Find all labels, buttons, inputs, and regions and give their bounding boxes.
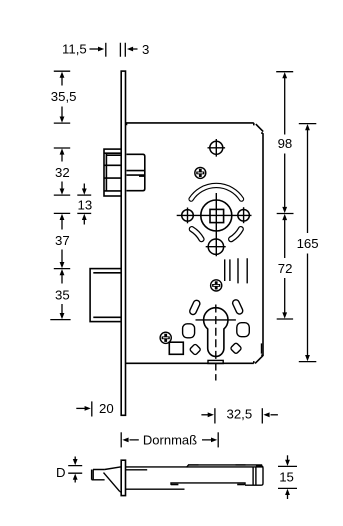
svg-text:35,5: 35,5: [51, 89, 77, 104]
dim 37 (left): [54, 213, 70, 268]
side view: top tabs: [188, 464, 199, 465]
dim 13 (left, col B): [77, 184, 92, 225]
side view: bottom tabs: [171, 484, 179, 486]
screw A: [195, 167, 206, 178]
bottom tab: [208, 360, 223, 363]
svg-text:15: 15: [279, 469, 294, 484]
latch tail: [127, 154, 145, 190]
dim 15 (side view): [278, 455, 297, 499]
euro cylinder hole: [204, 308, 228, 357]
svg-text:165: 165: [297, 236, 319, 251]
kidney slot lower-right of follower: [231, 229, 241, 239]
svg-text:32,5: 32,5: [227, 406, 253, 421]
latch head (front view): [104, 149, 121, 196]
side view: lock case body: [126, 465, 264, 489]
slot upper-right of cylinder: [232, 299, 244, 315]
kidney slot lower-left of follower: [192, 229, 202, 239]
svg-text:20: 20: [99, 401, 114, 416]
lower hole below follower: [206, 239, 226, 254]
top fixing hole: [208, 139, 226, 157]
svg-text:13: 13: [78, 198, 93, 213]
dim 11,5 (top): [62, 41, 106, 56]
dim 98 (right): [276, 72, 293, 214]
svg-text:Dornmaß: Dornmaß: [143, 432, 197, 447]
svg-text:32: 32: [55, 165, 70, 180]
screw C: [160, 332, 171, 343]
small diamond slot lower-left: [189, 344, 201, 356]
cylinder crosshair: [196, 319, 236, 321]
svg-text:37: 37: [55, 233, 70, 248]
side view: faceplate: [121, 460, 125, 495]
small diamond slot lower-right: [230, 342, 242, 354]
svg-text:3: 3: [142, 42, 149, 57]
dim 35 (left): [50, 269, 70, 320]
svg-text:D: D: [56, 465, 66, 480]
hatch lines: [225, 258, 248, 283]
follower crosshair: [177, 193, 252, 256]
dim 32,5 (bottom right): [201, 406, 278, 423]
dim Dornmass: [121, 432, 218, 447]
slot upper-left of cylinder: [189, 299, 201, 315]
slot right of cylinder: [237, 323, 250, 337]
follower circle: [201, 200, 232, 231]
side view: latch bolt: [92, 467, 122, 492]
dim 20 (bottom left): [76, 401, 113, 417]
faceplate (front view): [121, 71, 125, 415]
slot left of cylinder: [183, 324, 195, 338]
corner slot on right edge: [261, 343, 263, 353]
left hole: [182, 208, 194, 224]
screw B: [211, 280, 222, 291]
right hole: [238, 207, 250, 223]
arc slot above follower: [191, 185, 241, 199]
dim 72 (right): [277, 214, 293, 319]
dim D (side view): [56, 457, 82, 483]
small square cutout: [169, 342, 183, 354]
dim 165 (right): [297, 124, 319, 362]
dim 32 (left): [54, 148, 70, 195]
deadbolt: [90, 269, 121, 322]
svg-text:72: 72: [278, 261, 293, 276]
svg-text:98: 98: [278, 136, 293, 151]
dim 3 (top, faceplate width): [120, 42, 149, 57]
svg-text:35: 35: [55, 288, 70, 303]
svg-text:11,5: 11,5: [62, 41, 87, 56]
lock case outline: [126, 123, 264, 364]
spindle square: [210, 209, 224, 222]
dim 35,5 (left): [51, 71, 77, 123]
